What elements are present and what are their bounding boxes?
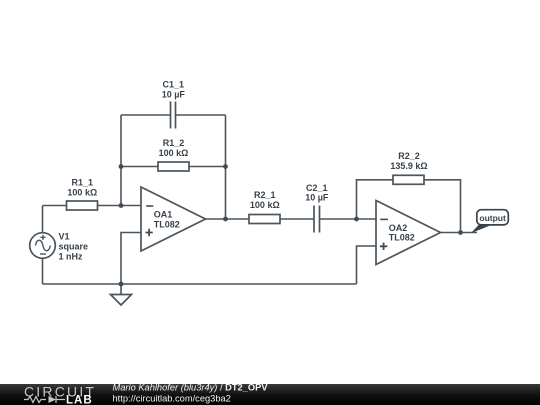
svg-text:R1_1: R1_1 bbox=[72, 177, 94, 187]
svg-text:100 kΩ: 100 kΩ bbox=[250, 200, 280, 210]
svg-text:output: output bbox=[479, 213, 506, 223]
svg-text:OA1: OA1 bbox=[154, 210, 173, 220]
svg-text:100 kΩ: 100 kΩ bbox=[159, 148, 189, 158]
svg-text:C2_1: C2_1 bbox=[306, 183, 328, 193]
svg-text:V1: V1 bbox=[59, 231, 70, 241]
svg-text:C1_1: C1_1 bbox=[163, 80, 185, 90]
svg-text:10 µF: 10 µF bbox=[305, 192, 329, 202]
svg-text:100 kΩ: 100 kΩ bbox=[67, 187, 97, 197]
svg-text:Mario Kahlhofer (blu3r4y) / DT: Mario Kahlhofer (blu3r4y) / DT2_OPV bbox=[113, 383, 269, 393]
svg-text:R1_2: R1_2 bbox=[163, 138, 185, 148]
svg-text:135.9 kΩ: 135.9 kΩ bbox=[390, 161, 427, 171]
svg-text:square: square bbox=[59, 242, 89, 252]
svg-text:http://circuitlab.com/ceg3ba2: http://circuitlab.com/ceg3ba2 bbox=[113, 393, 231, 403]
svg-text:OA2: OA2 bbox=[389, 223, 408, 233]
svg-text:R2_1: R2_1 bbox=[254, 190, 276, 200]
svg-text:R2_2: R2_2 bbox=[398, 151, 420, 161]
svg-text:TL082: TL082 bbox=[389, 232, 415, 242]
svg-text:LAB: LAB bbox=[66, 394, 93, 405]
svg-text:10 µF: 10 µF bbox=[162, 90, 186, 100]
svg-text:1 nHz: 1 nHz bbox=[59, 252, 84, 262]
svg-text:TL082: TL082 bbox=[154, 219, 180, 229]
